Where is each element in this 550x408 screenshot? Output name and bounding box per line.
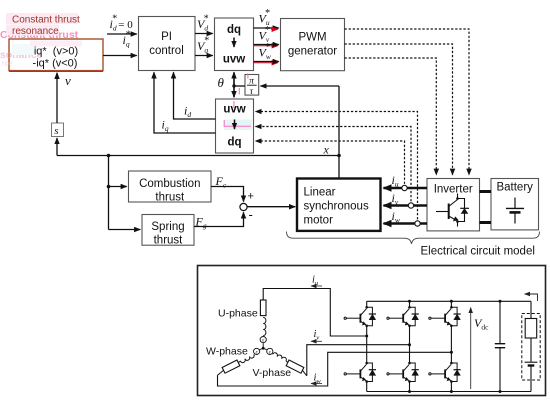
svg-text:Fc: Fc (215, 174, 227, 190)
svg-text:iq: iq (162, 118, 169, 134)
svg-text:Vw*: Vw* (259, 42, 271, 61)
pink artifact marks near transform boxes (224, 120, 252, 131)
svg-text:resonance: resonance (12, 26, 59, 37)
svg-text:v: v (65, 73, 71, 88)
brace electrical circuit model (287, 232, 540, 244)
block Combustion thrust (129, 171, 212, 202)
svg-text:thrust: thrust (154, 235, 184, 247)
IGBT Q4 (387, 362, 419, 383)
wire into combustion thrust (109, 186, 127, 188)
node x line / thrust branch (107, 154, 111, 158)
svg-text:-iq* (v<0): -iq* (v<0) (33, 58, 78, 70)
inductor U phase (263, 318, 266, 336)
svg-text:Inverter: Inverter (434, 184, 473, 196)
svg-text:W-phase: W-phase (206, 346, 248, 358)
dashed wire PWM gate signal u (345, 29, 470, 175)
Vdc measurement arrow (470, 308, 472, 390)
block Linear synchronous motor (297, 179, 381, 231)
dc bus top rail (367, 300, 531, 302)
inductor W phase (240, 354, 255, 363)
IGBT Q1 (344, 306, 376, 327)
svg-text:uvw: uvw (223, 104, 245, 116)
iu current direction arrow (311, 285, 322, 287)
star point node (262, 347, 265, 350)
wire coil to resistor V (286, 361, 288, 363)
battery branch riser (530, 301, 532, 318)
svg-text:iq*: iq* (123, 30, 131, 49)
svg-text:Spring: Spring (151, 221, 184, 233)
svg-text:θ: θ (218, 75, 225, 90)
node leg3 midpoint (450, 351, 453, 354)
svg-text:Linear: Linear (304, 187, 336, 199)
star connector wires (259, 343, 267, 350)
wire pi/tau output to theta node (234, 85, 245, 87)
iw current direction arrow (311, 383, 322, 385)
svg-text:thrust: thrust (155, 192, 185, 204)
leg 2 wire (409, 301, 411, 391)
wire id feedback into PI (174, 72, 216, 119)
svg-text:iv: iv (392, 191, 399, 207)
svg-text:motor: motor (304, 215, 334, 227)
svg-text:V-phase: V-phase (253, 367, 292, 379)
svg-text:Combustion: Combustion (139, 178, 200, 190)
faint artifact patches inside red box (12, 44, 38, 55)
dashed wire PWM gate signal w (345, 58, 437, 175)
wire theta up into dq/uvw (233, 72, 235, 86)
node iw current tap (415, 221, 420, 226)
summing junction (240, 203, 247, 210)
wire iq* from red box into PI (103, 55, 137, 57)
battery icon (506, 198, 524, 224)
svg-text:x: x (323, 143, 330, 157)
circuit frame (198, 266, 546, 396)
wire x horizontal to s block (57, 155, 339, 157)
emf source V (267, 348, 273, 354)
dashed wire iu sense into uvw/dq (256, 141, 405, 188)
block Battery (491, 179, 539, 230)
resistor U phase (260, 300, 266, 316)
block dq to uvw transform (215, 18, 254, 71)
svg-text:PI: PI (161, 31, 172, 43)
node x line / motor vertical (337, 154, 341, 158)
resistor V phase (286, 360, 304, 373)
wire w phase to leg3 midpoint (218, 352, 452, 386)
svg-text:rce: rce (2, 59, 12, 68)
wire Vq* PI to dq/uvw (195, 55, 213, 57)
block PI control (139, 17, 196, 71)
wire x into s block (56, 138, 58, 156)
wire x vertical from motor top (338, 86, 340, 179)
wire x to combustion thrust branch (108, 156, 110, 230)
svg-text:synchronous: synchronous (304, 201, 369, 213)
svg-text:Electrical circuit model: Electrical circuit model (421, 246, 535, 258)
wire Vu* dq/uvw to PWM (254, 27, 279, 29)
leg 3 wire (450, 301, 452, 391)
svg-text:U-phase: U-phase (218, 308, 258, 320)
wire Vv* dq/uvw to PWM (254, 45, 278, 47)
pink highlight behind red heading (6, 13, 78, 24)
red underline of red box (9, 70, 103, 72)
svg-text:Constant thrust: Constant thrust (12, 15, 80, 26)
svg-text:iw: iw (392, 209, 400, 225)
svg-text:Vq*: Vq* (197, 36, 209, 55)
block Inverter (427, 179, 480, 231)
node theta junction (232, 84, 235, 87)
svg-text:s: s (54, 125, 58, 137)
wire iv inverter to motor (thick) (384, 204, 428, 207)
node combustion branch (107, 185, 111, 189)
svg-text:dq: dq (227, 24, 241, 36)
block PWM generator (281, 19, 345, 71)
battery current direction arrow (525, 294, 538, 301)
wire theta down into uvw/dq (233, 86, 235, 97)
block uvw to dq transform (216, 99, 254, 153)
wire x into pi/tau (261, 85, 340, 87)
svg-text:τ: τ (250, 87, 254, 97)
node rail leg3 bottom (450, 390, 453, 393)
IGBT Q6 (429, 362, 461, 383)
node rail leg3 top (450, 300, 453, 303)
wire u phase to leg1 midpoint (263, 289, 367, 337)
wire Vd* PI to dq/uvw (195, 33, 213, 35)
wire Fg to summing junction (194, 212, 244, 226)
block s (differentiator) (52, 123, 64, 137)
svg-text:iu: iu (392, 173, 399, 189)
wire into spring thrust (109, 229, 141, 231)
wire iu inverter to motor (thick) (384, 187, 428, 190)
wire inverter to battery dc+ (480, 190, 492, 193)
block Spring thrust (142, 215, 194, 246)
node rail leg2 bottom (408, 390, 411, 393)
wire inverter to battery dc- (480, 221, 492, 224)
resistor W phase (222, 360, 240, 373)
svg-text:uvw: uvw (223, 54, 245, 66)
battery cell (525, 338, 538, 392)
node rail leg2 top (408, 300, 411, 303)
node rail cap top (499, 300, 502, 303)
dashed wire iw sense into uvw/dq (256, 112, 418, 224)
IGBT Q5 (429, 306, 461, 327)
wire Vw* dq/uvw to PWM (254, 62, 278, 64)
node iu current tap (402, 185, 407, 190)
wire coil to resistor W (238, 361, 240, 363)
svg-text:generator: generator (288, 46, 337, 58)
svg-text:dq: dq (227, 137, 241, 149)
dashed wire iv sense into uvw/dq (256, 127, 412, 206)
emf source W (254, 348, 260, 354)
node leg1 midpoint (365, 335, 368, 338)
svg-text:control: control (149, 45, 184, 57)
wire v phase to leg2 midpoint (307, 345, 410, 376)
IGBT Q2 (344, 362, 376, 383)
block iq* command (red box) (9, 39, 103, 71)
block pi/tau (245, 75, 259, 96)
dc bus bottom rail (367, 391, 531, 393)
wire iq feedback into PI (154, 72, 216, 133)
battery dashed outline (522, 314, 540, 381)
node rail cap bottom (499, 390, 502, 393)
capacitor C (495, 301, 505, 391)
svg-text:Vd*: Vd* (197, 14, 208, 33)
svg-text:Battery: Battery (496, 182, 533, 194)
emf source U (260, 337, 266, 343)
wire resistor V to riser (302, 370, 306, 376)
wire v from s into red box (56, 73, 58, 123)
inductor V phase (273, 352, 288, 361)
IGBT Q3 (387, 306, 419, 327)
leg 1 wire (366, 301, 368, 391)
svg-text:-: - (249, 207, 253, 222)
node leg2 midpoint (408, 343, 411, 346)
wire id*=0 into PI (107, 33, 137, 35)
battery internal resistance (525, 319, 537, 339)
wire Fc to summing junction (211, 187, 244, 202)
wire F into motor (247, 206, 295, 208)
node iv current tap (408, 203, 413, 208)
svg-text:iq* (v>0): iq* (v>0) (34, 46, 78, 58)
svg-text:id: id (184, 104, 191, 120)
dashed wire PWM gate signal v (345, 44, 453, 175)
wire resistor W to corner (218, 370, 224, 375)
wire iw inverter to motor (thick) (384, 222, 428, 225)
svg-text:+: + (248, 191, 254, 203)
inverter icon IGBT (436, 194, 469, 227)
svg-text:PWM: PWM (298, 32, 326, 44)
svg-text:Fg: Fg (195, 215, 207, 231)
iv current direction arrow (311, 340, 322, 342)
